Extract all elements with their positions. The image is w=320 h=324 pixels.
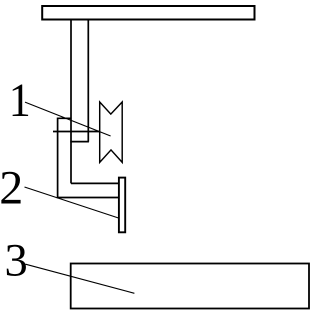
- vertical rod right line: [87, 20, 89, 142]
- pulley axle line: [53, 131, 100, 133]
- leader line 1: [25, 102, 111, 136]
- leader line 2: [25, 187, 119, 218]
- vertical rod left line: [70, 20, 72, 184]
- top mounting bar: [42, 6, 254, 20]
- rod bottom cap wire: [70, 141, 89, 143]
- svg-text:1: 1: [9, 74, 31, 127]
- base block: [71, 264, 309, 309]
- leader line 3: [26, 264, 135, 293]
- bracket outer outline: [58, 118, 120, 197]
- v-groove pulley wheel: [100, 102, 123, 162]
- svg-text:2: 2: [0, 161, 23, 214]
- bracket inner wire: [71, 182, 120, 184]
- end plate: [119, 178, 125, 233]
- svg-text:3: 3: [5, 236, 28, 287]
